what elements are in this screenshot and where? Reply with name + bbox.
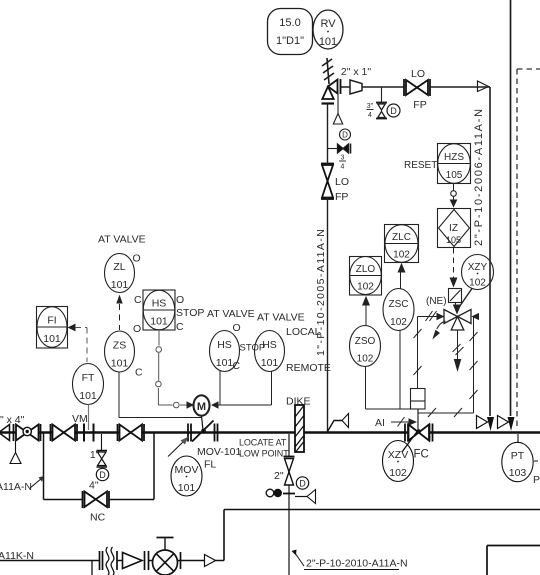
svg-text:AT VALVE: AT VALVE: [257, 312, 305, 324]
svg-text:D: D: [342, 131, 348, 140]
svg-text:C: C: [134, 294, 142, 306]
pipe to riser corner: [430, 86, 490, 88]
ZS stem to MOV: [118, 372, 120, 418]
label 2"-P-10-2010-A11A-N with leader: [292, 550, 297, 556]
interlock IZ 105: [438, 209, 471, 248]
svg-text:D: D: [299, 479, 306, 489]
position light ZLO 102: [350, 257, 382, 296]
drain valve 3/4 with D on outlet line: [381, 87, 383, 102]
position switch ZSC 102: [383, 289, 414, 331]
svg-text:O: O: [176, 294, 184, 306]
vent stub triangle: [337, 90, 339, 114]
stem XZY to valve: [460, 289, 473, 307]
instrument bubble RV 101: [313, 10, 343, 49]
bypass line with NC 4" valve: [43, 433, 45, 500]
long vertical line from top: [510, 0, 512, 416]
equipment corner bottom right: [487, 545, 540, 547]
line 2006 tie-in arrow: [477, 416, 488, 429]
reducer 2" x 1": [350, 80, 362, 94]
main process pipe: [0, 431, 540, 434]
svg-text:" x 4": " x 4": [0, 414, 25, 426]
svg-text:NC: NC: [90, 512, 106, 524]
check valve: [117, 560, 123, 562]
motor operator M: [194, 395, 210, 415]
relief valve spring: [322, 58, 334, 84]
left port arrow: [437, 313, 445, 321]
svg-text:C: C: [233, 360, 241, 372]
signal HZS to IZ: [453, 184, 455, 208]
svg-text:3": 3": [367, 103, 374, 110]
svg-text:LOCATE AT: LOCATE AT: [239, 438, 287, 448]
2005 vertical pipe: [327, 104, 329, 165]
3-way solenoid valve: [444, 310, 471, 331]
svg-text:FT: FT: [82, 372, 95, 384]
gate valve third: [117, 424, 119, 441]
svg-text:O: O: [133, 323, 141, 335]
svg-text:105: 105: [446, 170, 463, 181]
MOV-101 motor valve: [187, 424, 189, 442]
3/4 drain with D on 2005 line: [328, 148, 338, 150]
venturi meter VM: [83, 424, 85, 442]
svg-text:XZY: XZY: [468, 262, 488, 273]
svg-text:FC: FC: [414, 449, 429, 461]
solenoid bubble XZY 102: [462, 255, 494, 290]
dike wall penetration: [295, 405, 304, 452]
svg-text:VM: VM: [72, 413, 88, 425]
svg-text:(NE): (NE): [426, 296, 447, 307]
flow transmitter FT 101: [73, 364, 104, 405]
svg-text:HS: HS: [262, 339, 277, 351]
svg-text:4: 4: [368, 112, 372, 119]
svg-text:AT VALVE: AT VALVE: [98, 234, 146, 246]
funnel vent at 2005 tie-in: [328, 421, 343, 432]
flow indicator FI 101: [37, 307, 68, 349]
svg-text:101: 101: [150, 316, 168, 328]
dashed battery-limit line: [517, 69, 540, 429]
tubing right leg: [473, 317, 475, 414]
relief outlet pipe: [341, 86, 404, 88]
svg-text:HZS: HZS: [444, 152, 464, 163]
svg-text:C: C: [135, 367, 143, 379]
MOV 101 tag bubble: [171, 456, 202, 496]
svg-text:ZLO: ZLO: [356, 264, 376, 275]
svg-text:2"-P-10-2010-A11A-N: 2"-P-10-2010-A11A-N: [306, 558, 408, 570]
position switch ZSO 102: [350, 326, 381, 367]
XZV 102 tag bubble: [383, 441, 414, 482]
svg-text:LO: LO: [411, 68, 425, 80]
riser 2"-P-10-2006: [489, 87, 491, 416]
svg-text:HS: HS: [217, 339, 232, 351]
svg-text:ZS: ZS: [113, 340, 126, 352]
hand switch HZS 105: [438, 144, 471, 184]
actuator on XZV: [411, 389, 426, 410]
relief valve RV-101 body: [322, 79, 341, 104]
1" drain valve with D: [101, 434, 103, 450]
FT impulse line: [88, 405, 90, 431]
svg-text:O: O: [233, 322, 241, 334]
position light ZLC 102: [385, 225, 419, 263]
svg-text:102: 102: [390, 317, 407, 328]
svg-text:AT VALVE: AT VALVE: [207, 308, 255, 320]
svg-text:102: 102: [357, 354, 374, 365]
right port arrow: [471, 313, 479, 320]
svg-text:FL: FL: [204, 459, 216, 471]
svg-text:101: 101: [111, 279, 129, 291]
svg-text:D: D: [390, 106, 397, 116]
position switch ZS 101: [105, 331, 135, 372]
dashed signal IZ to solenoid: [453, 248, 455, 278]
solenoid box (NE): [449, 289, 462, 303]
svg-text:AI: AI: [375, 417, 385, 429]
svg-text:ZSO: ZSO: [355, 336, 376, 347]
svg-text:PT: PT: [511, 450, 525, 462]
svg-text:101: 101: [216, 357, 234, 369]
svg-text:3: 3: [341, 155, 345, 162]
svg-text:105: 105: [446, 235, 461, 245]
svg-text:FI: FI: [47, 315, 56, 327]
HS2 and HS3 to M line: [211, 401, 219, 409]
svg-text:LOCAL: LOCAL: [286, 326, 321, 338]
svg-text:O: O: [133, 253, 141, 265]
svg-text:IZ: IZ: [449, 223, 458, 234]
ball valve with flanges: [13, 424, 15, 441]
dashed signal FT to FI: [68, 324, 76, 332]
svg-text:RESET: RESET: [404, 160, 437, 171]
svg-text:2"-P-10-2006-A11A-N: 2"-P-10-2006-A11A-N: [473, 107, 485, 246]
svg-text:101: 101: [319, 36, 337, 48]
vent stub under valve: [15, 441, 17, 453]
tubing left leg: [418, 316, 445, 318]
vertical gate valve LO FP on 2005 line: [321, 164, 334, 200]
tubing bottom leg: [418, 412, 474, 414]
svg-text:2": 2": [274, 470, 284, 482]
svg-text:101: 101: [261, 357, 279, 369]
svg-text:1"D1": 1"D1": [276, 35, 304, 47]
svg-text:D: D: [99, 470, 106, 480]
svg-text:XZV: XZV: [388, 449, 408, 461]
svg-text:MOV-101: MOV-101: [197, 446, 242, 458]
fail action curved arrow: [437, 321, 446, 329]
reducer at left edge 6"x4": [0, 425, 10, 441]
svg-text:LO: LO: [335, 176, 349, 188]
shutdown valve XZV: [404, 424, 406, 442]
svg-text:MOV: MOV: [175, 464, 199, 476]
svg-text:FP: FP: [413, 99, 426, 111]
dashed signal ZS to ZL with arrow: [116, 295, 122, 304]
svg-text:4: 4: [341, 164, 345, 171]
svg-text:RV: RV: [320, 18, 336, 30]
svg-text:102: 102: [357, 282, 374, 293]
svg-text:ZL: ZL: [113, 261, 125, 273]
gate valve LO FP horizontal: [404, 79, 430, 96]
low point drain assembly 2": [288, 434, 290, 456]
instrument tag 15.0 1"D1": [268, 9, 313, 55]
funnel right: [295, 496, 307, 498]
top line tie-in arrow: [498, 416, 509, 429]
svg-text:ZLC: ZLC: [392, 232, 411, 243]
svg-text:ZSC: ZSC: [389, 299, 409, 310]
HS1 chain to M: [156, 330, 187, 408]
svg-text:C: C: [176, 321, 184, 333]
svg-text:REMOTE: REMOTE: [286, 362, 331, 374]
svg-text:102: 102: [469, 278, 486, 289]
gate valve second: [50, 424, 52, 441]
drain header pipe: [224, 509, 540, 511]
svg-text:STOP: STOP: [176, 307, 204, 319]
svg-text:103: 103: [509, 467, 527, 479]
svg-text:LOW POINT: LOW POINT: [239, 449, 289, 459]
svg-text:15.0: 15.0: [279, 17, 300, 29]
vent line with arrow below valve: [457, 330, 459, 360]
svg-text:A11A-N: A11A-N: [0, 481, 32, 493]
svg-text:101: 101: [178, 482, 196, 494]
flange and spec break: [99, 551, 101, 570]
svg-text:4": 4": [89, 480, 99, 492]
svg-text:M: M: [197, 401, 206, 413]
hose connection dots: [266, 489, 274, 497]
svg-text:102: 102: [389, 467, 407, 479]
svg-text:2" x 1": 2" x 1": [341, 66, 371, 78]
globe valve with handwheel: [149, 560, 153, 562]
svg-text:P: P: [533, 474, 540, 486]
svg-text:FP: FP: [335, 191, 348, 203]
svg-text:101: 101: [43, 333, 61, 345]
svg-text:HS: HS: [152, 298, 167, 310]
svg-text:102: 102: [393, 250, 410, 261]
open flow arrow: [205, 555, 216, 567]
pressure transmitter PT 103: [517, 434, 519, 443]
valve stem: [417, 409, 419, 430]
svg-text:101: 101: [79, 390, 97, 402]
flow arrow at corner: [478, 81, 489, 92]
svg-text:101: 101: [111, 358, 129, 370]
